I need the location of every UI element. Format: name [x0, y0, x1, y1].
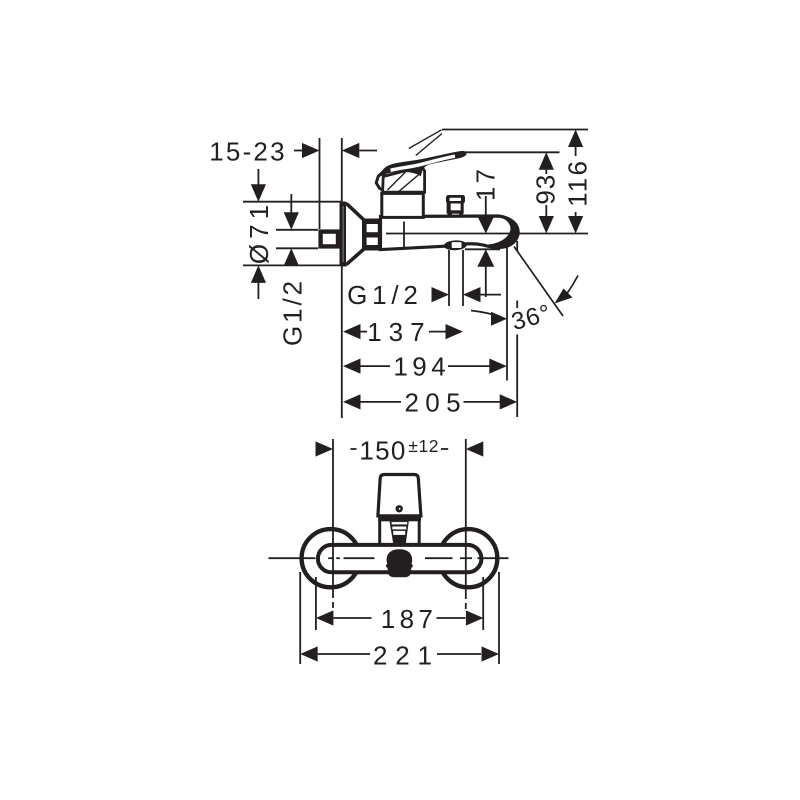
svg-text:Ø71: Ø71: [244, 200, 274, 264]
svg-text:187: 187: [381, 604, 438, 634]
svg-text:137: 137: [367, 317, 431, 347]
svg-text:17: 17: [471, 166, 501, 201]
svg-text:93: 93: [531, 174, 561, 205]
svg-text:194: 194: [393, 352, 450, 382]
svg-text:15-23: 15-23: [209, 136, 287, 166]
svg-text:116: 116: [562, 159, 592, 207]
svg-text:G1/2: G1/2: [278, 278, 308, 346]
svg-text:G1/2: G1/2: [347, 280, 423, 310]
svg-text:150: 150: [359, 435, 406, 465]
svg-text:221: 221: [373, 640, 440, 670]
svg-text:205: 205: [405, 387, 467, 417]
svg-text:±12: ±12: [408, 436, 439, 456]
